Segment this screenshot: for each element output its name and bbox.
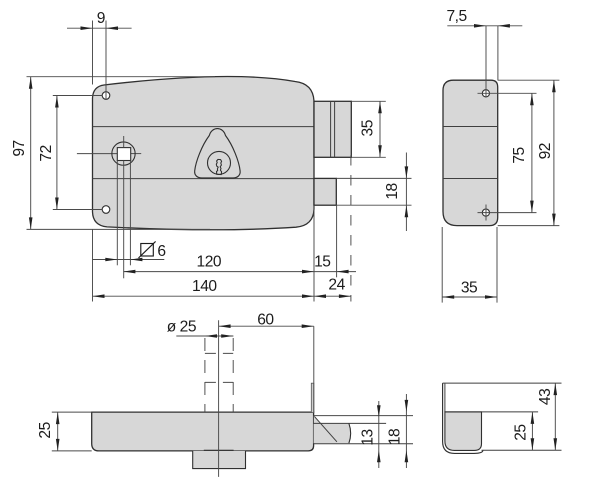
- lock body side view: [443, 80, 498, 225]
- latch bolt bevel face: [314, 416, 321, 424]
- dim 120 15 line: [123, 271, 356, 273]
- svg-text:75: 75: [511, 147, 528, 164]
- svg-text:97: 97: [11, 140, 28, 156]
- dim 25 left line: [57, 412, 59, 451]
- svg-text:24: 24: [328, 277, 345, 294]
- dim 92 arrow bottom: [552, 214, 556, 226]
- dim 35b extension right: [496, 227, 498, 303]
- dim 140 arrow right: [302, 294, 314, 298]
- dim 97 arrow top: [29, 77, 33, 89]
- dim 9 arrow left: [81, 26, 93, 30]
- dim 9 line: [67, 27, 132, 29]
- svg-text:7,5: 7,5: [447, 8, 468, 25]
- dim 25 left extension top: [52, 411, 92, 413]
- dim 120 arrow left: [123, 270, 135, 274]
- body face line upper: [93, 126, 315, 128]
- side hole bottom tick: [485, 205, 487, 221]
- svg-text:15: 15: [314, 253, 331, 270]
- follower square hole: [117, 148, 130, 161]
- side bottom view top edge: [443, 382, 562, 384]
- screw hole top: [102, 92, 110, 100]
- bolt flat top edge H2: [314, 422, 387, 424]
- bolt bevel diagonal: [314, 416, 337, 441]
- dim 92 line: [553, 80, 555, 225]
- side bottom mid line: [445, 411, 538, 413]
- faceplate extension line: [313, 326, 315, 412]
- side view face line lower: [443, 178, 498, 180]
- follower crosshair horizontal: [77, 153, 117, 155]
- svg-text:9: 9: [97, 10, 105, 27]
- dim 7.5 arrow left: [474, 24, 486, 28]
- dim 9 arrow right: [106, 26, 118, 30]
- dim 72 extension bottom: [53, 209, 103, 211]
- follower circle: [112, 142, 135, 165]
- side screw hole top: [482, 90, 489, 97]
- svg-text:18: 18: [384, 183, 401, 199]
- svg-text:92: 92: [537, 143, 554, 159]
- dim 7.5 arrow right: [498, 24, 510, 28]
- latch bolt top view body: [314, 423, 351, 443]
- dim 72 line: [56, 96, 58, 210]
- dim 60 arrow right: [302, 324, 314, 328]
- dim 35 arrow bottom: [378, 145, 382, 157]
- dim 60 arrow left: [219, 324, 231, 328]
- dim 18 arrow bottom: [405, 205, 409, 217]
- cylinder hidden rung lower dashed: [205, 381, 233, 383]
- dim 9 extension right: [105, 21, 107, 100]
- dim 24 arrow left: [314, 294, 326, 298]
- deadbolt throw dashed line: [350, 155, 352, 302]
- dim 97 arrow bottom: [29, 217, 33, 229]
- dim 15 extension: [336, 205, 338, 277]
- dim 35 arrow top: [378, 101, 382, 113]
- dim 97 extension bottom: [27, 228, 211, 230]
- cylinder ring edge thick segment: [204, 450, 234, 452]
- dim 13 arrow bottom: [377, 450, 381, 462]
- screw hole bottom: [102, 206, 110, 214]
- cylinder hidden right dashed: [232, 338, 234, 412]
- square 6 arrow right: [130, 258, 142, 262]
- dim 140 24 line: [93, 295, 351, 297]
- body right extension down: [313, 205, 315, 301]
- dim 25b line: [531, 412, 533, 450]
- dim 25b arrow bottom: [531, 438, 535, 450]
- side view face line upper: [443, 126, 498, 128]
- dim 18b arrow top: [405, 400, 409, 412]
- dim 35b extension left: [441, 227, 443, 303]
- dim 75 arrow top: [530, 93, 534, 105]
- cylinder centerline: [218, 320, 220, 477]
- bolt tip arc: [349, 423, 351, 443]
- key silhouette: [216, 159, 221, 174]
- dim o25 line: [176, 335, 233, 337]
- dim 43 line: [554, 383, 556, 450]
- cylinder hidden left dashed: [204, 338, 206, 412]
- svg-text:13: 13: [360, 429, 377, 445]
- svg-text:35: 35: [461, 279, 478, 296]
- svg-text:140: 140: [192, 278, 217, 295]
- cylinder tab below: [193, 451, 246, 469]
- dim 92 extension top: [498, 79, 560, 81]
- dim 25 left arrow top: [56, 412, 60, 424]
- svg-text:18: 18: [386, 429, 403, 445]
- side bottom inner left line: [444, 384, 446, 412]
- dim o25 arrow left: [205, 334, 217, 338]
- dim 120 15 shared arrow: [302, 270, 314, 274]
- square 6 arrow left: [105, 258, 117, 262]
- side bottom view outer shell: [443, 383, 483, 453]
- svg-text:60: 60: [257, 311, 274, 328]
- faceplate strip top view: [311, 383, 314, 412]
- dim 72 extension top: [53, 95, 103, 97]
- cylinder hidden rung upper dashed: [205, 352, 233, 354]
- dim 92 arrow top: [552, 80, 556, 92]
- latch bolt front view: [314, 101, 351, 157]
- dim 18 line: [405, 153, 407, 232]
- dim 13 line: [378, 401, 380, 468]
- dim 43 arrow top: [554, 383, 558, 395]
- dim 72 arrow bottom: [55, 198, 59, 210]
- dim 72 arrow top: [55, 96, 59, 108]
- dim 25 left arrow bottom: [56, 439, 60, 451]
- dim 97 extension top: [27, 76, 216, 78]
- key cylinder circle: [208, 151, 231, 174]
- dim 25b arrow top: [531, 412, 535, 424]
- svg-text:72: 72: [38, 145, 55, 161]
- body face line lower: [93, 178, 315, 180]
- dim 140 arrow left: [93, 294, 105, 298]
- svg-text:120: 120: [197, 253, 222, 270]
- cylinder keyhole shape: [195, 129, 241, 178]
- svg-text:25: 25: [512, 424, 529, 441]
- deadbolt front view: [314, 178, 336, 205]
- dim 75 extension top: [478, 92, 537, 94]
- bolt bottom edge H3: [314, 443, 413, 445]
- square 6 extension right: [129, 161, 131, 266]
- dim 15 arrow right: [337, 270, 349, 274]
- dim 60 line: [219, 325, 314, 327]
- side bottom bottom edge: [482, 449, 562, 451]
- dim 35 line: [379, 101, 381, 157]
- dim 43 arrow bottom: [554, 438, 558, 450]
- dim 97 line: [30, 77, 32, 230]
- lock body front view: [93, 77, 315, 230]
- latch bolt line a: [330, 101, 332, 157]
- dim 18b line: [405, 394, 407, 468]
- side screw hole bottom: [482, 209, 489, 216]
- side bottom gray block: [445, 412, 482, 451]
- svg-text:43: 43: [537, 389, 554, 405]
- dim 92 extension bottom: [498, 225, 560, 227]
- dim 25 left extension bottom: [52, 450, 92, 452]
- dim 35b line: [442, 296, 497, 298]
- dim 7.5 line: [447, 25, 522, 27]
- dim 18b arrow bottom: [405, 450, 409, 462]
- svg-text:35: 35: [360, 119, 377, 136]
- dim 35 extension bottom: [351, 156, 386, 158]
- dim 9 extension left: [92, 21, 94, 85]
- dim 35b arrow right: [485, 295, 497, 299]
- dim 120 center extension: [123, 136, 125, 148]
- dim 18 extension top: [336, 177, 411, 179]
- svg-text:6: 6: [157, 243, 165, 260]
- dim 75 extension bottom: [478, 212, 537, 214]
- square 6 dim line: [93, 259, 165, 261]
- dim 75 line: [531, 93, 533, 212]
- bolt width extension H1: [314, 415, 413, 417]
- dim 24 arrow right: [339, 294, 351, 298]
- svg-text:ø 25: ø 25: [167, 319, 197, 336]
- dim o25 arrow right: [221, 334, 233, 338]
- lock case top view slab: [92, 412, 314, 451]
- square symbol slash: [139, 241, 156, 258]
- square 6 extension left: [116, 161, 118, 266]
- dim 7.5 extension right: [497, 26, 499, 80]
- dim 18 extension bottom: [336, 204, 411, 206]
- body left extension down: [92, 230, 94, 302]
- square symbol: [141, 244, 154, 257]
- dim 13 arrow top: [377, 405, 381, 417]
- dim 75 arrow bottom: [530, 201, 534, 213]
- latch bolt line b: [334, 101, 336, 157]
- dim 18 arrow top: [405, 166, 409, 178]
- svg-text:25: 25: [37, 421, 54, 438]
- dim 7.5 extension left: [485, 26, 487, 97]
- dim 35 extension top: [351, 100, 386, 102]
- dim 35b arrow left: [442, 295, 454, 299]
